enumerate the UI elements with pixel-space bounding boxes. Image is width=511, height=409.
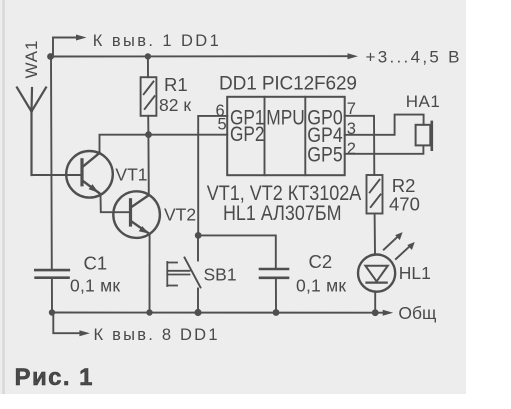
svg-text:HA1: HA1 xyxy=(406,92,440,111)
wire C1 bottom to ground rail xyxy=(51,278,53,313)
svg-text:К выв. 8 DD1: К выв. 8 DD1 xyxy=(94,326,218,344)
svg-text:HL1 АЛ307БМ: HL1 АЛ307БМ xyxy=(223,202,342,225)
svg-text:HL1: HL1 xyxy=(399,263,431,283)
wire pin6 GP1 net down to SB1 xyxy=(198,116,227,235)
svg-text:К выв. 1 DD1: К выв. 1 DD1 xyxy=(93,32,219,50)
svg-text:VT1: VT1 xyxy=(115,164,147,184)
svg-text:SB1: SB1 xyxy=(204,265,237,285)
transistor VT1 xyxy=(66,151,113,198)
wire ground rail xyxy=(52,312,385,314)
svg-text:3: 3 xyxy=(347,120,356,138)
wire top tap to pin 1 xyxy=(53,38,78,57)
wire VT2 collector riser xyxy=(147,135,149,196)
push button SB1 xyxy=(197,235,199,260)
svg-text:5: 5 xyxy=(218,116,227,134)
capacitor C2 xyxy=(260,269,288,278)
svg-text:DD1 PIC12F629: DD1 PIC12F629 xyxy=(219,74,357,95)
wire antenna to VT1 base xyxy=(32,174,82,176)
DD1 box xyxy=(227,97,345,175)
svg-text:GP2: GP2 xyxy=(230,123,265,146)
wire VT1 emitter to VT2 base xyxy=(101,194,130,212)
wire pin7 GP0 to R2 xyxy=(345,116,375,175)
svg-text:GP5: GP5 xyxy=(307,143,343,166)
svg-text:+3...4,5 В: +3...4,5 В xyxy=(366,48,460,67)
wire bottom tap to pin 8 xyxy=(53,313,81,334)
resistor R1 xyxy=(147,57,149,78)
wire C2 bottom xyxy=(275,278,277,313)
svg-text:470: 470 xyxy=(389,194,420,215)
svg-text:7: 7 xyxy=(347,100,356,118)
LED arrows xyxy=(384,235,400,250)
transistor VT2 xyxy=(113,191,160,238)
svg-text:82 к: 82 к xyxy=(159,95,191,115)
LED HL1 xyxy=(358,255,395,292)
wire left rail down to C1 xyxy=(50,57,53,271)
antenna WA1 xyxy=(17,88,46,176)
wire pin3 GP4 to HA1 top xyxy=(345,115,424,135)
svg-text:MPU: MPU xyxy=(266,106,305,129)
wire VT2 emitter down to ground rail xyxy=(149,234,151,313)
svg-text:R1: R1 xyxy=(164,74,188,95)
wire collector net to DD1 pin5 xyxy=(100,135,228,153)
svg-text:VT2: VT2 xyxy=(164,205,196,225)
svg-text:C1: C1 xyxy=(84,253,108,274)
svg-text:Общ: Общ xyxy=(398,303,436,323)
svg-text:0,1 мк: 0,1 мк xyxy=(296,275,346,295)
wire pin2 GP5 to HA1 bottom xyxy=(345,145,424,153)
wire SB1 junction to C2 xyxy=(198,235,276,269)
svg-text:C2: C2 xyxy=(309,251,333,272)
resistor R2 xyxy=(367,175,383,214)
buzzer HA1 xyxy=(416,125,431,146)
svg-text:2: 2 xyxy=(347,140,356,158)
svg-text:Рис. 1: Рис. 1 xyxy=(15,364,93,391)
wire top +V rail xyxy=(51,55,350,57)
svg-text:0,1 мк: 0,1 мк xyxy=(70,276,120,296)
svg-text:WA1: WA1 xyxy=(22,41,41,79)
capacitor C1 xyxy=(35,270,69,278)
arrowheads xyxy=(76,35,415,337)
